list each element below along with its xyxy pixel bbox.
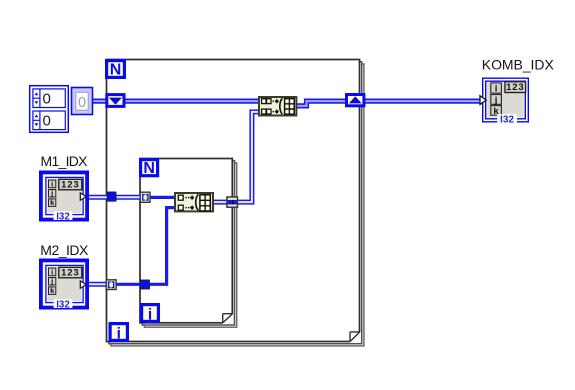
svg-text:i: i [117,325,121,342]
svg-text:j: j [50,277,53,286]
svg-text:I32: I32 [56,211,70,222]
svg-text:I32: I32 [500,115,514,126]
svg-text:I32: I32 [56,299,70,310]
svg-text:123: 123 [506,82,524,93]
svg-text:i: i [148,306,152,323]
svg-text:i: i [51,179,53,188]
svg-text:N: N [110,61,122,78]
svg-text:123: 123 [61,268,79,279]
svg-text:j: j [50,189,53,198]
svg-text:0: 0 [78,95,86,111]
svg-text:M2_IDX: M2_IDX [40,242,89,258]
svg-text:KOMB_IDX: KOMB_IDX [482,56,555,72]
svg-text:M1_IDX: M1_IDX [41,153,89,169]
svg-text:j: j [494,95,498,106]
svg-text:0: 0 [43,91,51,108]
svg-text:i: i [51,267,53,276]
svg-text:i: i [495,84,498,95]
svg-text:123: 123 [61,180,79,191]
svg-text:N: N [143,160,155,177]
svg-text:0: 0 [43,113,51,130]
